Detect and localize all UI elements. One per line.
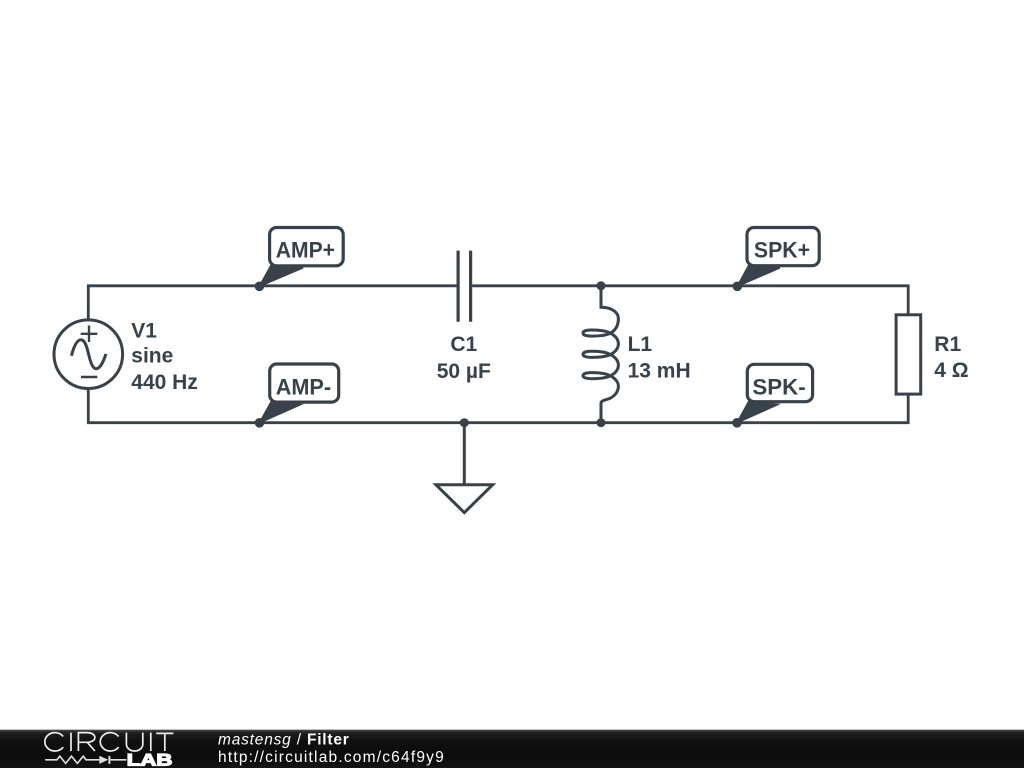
svg-text:SPK+: SPK+ — [754, 238, 810, 263]
node dot L1 bottom — [597, 418, 606, 427]
svg-text:R1: R1 — [934, 333, 961, 356]
ground — [436, 423, 493, 513]
wire top-left segment with corner — [88, 286, 456, 321]
node dot L1 top — [597, 281, 606, 290]
wire top-right segment with corner — [472, 286, 908, 316]
flag AMP- — [255, 364, 339, 428]
inductor L1 — [583, 286, 618, 423]
svg-text:L1: L1 — [628, 333, 653, 356]
svg-text:440 Hz: 440 Hz — [131, 371, 198, 394]
svg-text:sine: sine — [131, 345, 173, 368]
node dot ground — [460, 418, 469, 427]
svg-text:LAB: LAB — [127, 752, 173, 768]
flag SPK+ — [733, 228, 820, 292]
logo squiggle resistor and diode — [45, 756, 126, 764]
L1 labels — [628, 333, 691, 383]
svg-text:mastensg / Filter: mastensg / Filter — [218, 731, 350, 748]
svg-text:AMP+: AMP+ — [276, 238, 335, 263]
svg-text:SPK-: SPK- — [752, 374, 805, 399]
resistor R1 — [896, 315, 921, 394]
svg-text:AMP-: AMP- — [276, 374, 331, 399]
C1 labels — [437, 333, 491, 383]
R1 labels — [934, 333, 968, 382]
svg-text:50 µF: 50 µF — [437, 360, 491, 383]
capacitor C1 — [458, 251, 471, 322]
wire bottom with corners — [88, 388, 908, 423]
flag SPK- — [732, 364, 812, 427]
svg-text:4 Ω: 4 Ω — [934, 359, 968, 382]
svg-text:13 mH: 13 mH — [628, 360, 691, 383]
svg-text:C1: C1 — [450, 333, 477, 356]
svg-text:http://circuitlab.com/c64f9y9: http://circuitlab.com/c64f9y9 — [218, 749, 445, 766]
logo CIRCUIT (drawn letters) — [45, 733, 174, 751]
voltage source V1 — [54, 320, 123, 389]
footer bar — [0, 730, 1024, 768]
flag AMP+ — [255, 228, 344, 292]
V1 labels — [131, 320, 198, 395]
svg-text:V1: V1 — [131, 320, 157, 343]
